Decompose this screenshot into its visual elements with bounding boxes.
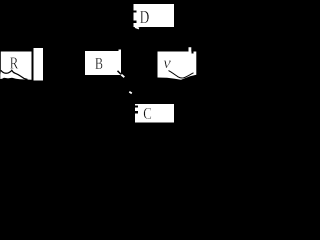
svg-text:B: B — [95, 54, 103, 73]
box B — [85, 51, 121, 75]
document R (front sheet) — [0, 52, 31, 80]
black notch under bump — [192, 52, 194, 54]
box D — [134, 4, 175, 27]
svg-text:v: v — [163, 55, 171, 72]
arrow ticks inside D left edge — [134, 11, 137, 13]
white stub at D bottom-left — [135, 27, 139, 29]
box C — [135, 104, 174, 123]
arrowhead on edge toward C — [129, 92, 132, 94]
document v (front sheet) — [158, 47, 197, 80]
back sheet bar (stack edge) — [34, 48, 44, 81]
document R wave line (front sheet edge) — [1, 70, 28, 79]
arrow ticks inside C left edge — [135, 106, 138, 108]
bump on top-right of B — [119, 50, 122, 52]
svg-text:R: R — [10, 54, 19, 73]
black diagonal at B bottom-right corner — [118, 71, 122, 75]
white stub from B corner — [121, 75, 124, 78]
svg-text:C: C — [143, 104, 152, 123]
document v wave line — [169, 71, 194, 78]
svg-text:D: D — [140, 7, 150, 27]
